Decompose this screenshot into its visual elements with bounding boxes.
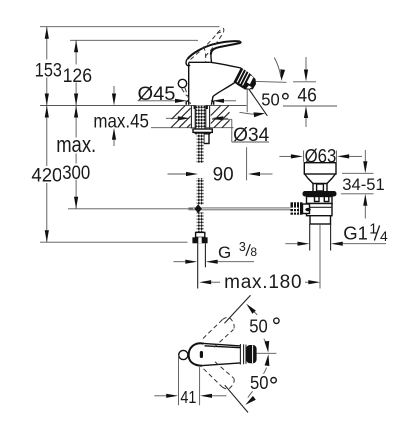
svg-text:50: 50 bbox=[261, 89, 280, 109]
label max.45 bbox=[92, 111, 151, 129]
lever raised (dashed) bbox=[191, 28, 224, 59]
label 153 bbox=[33, 60, 60, 78]
lever (solid) bbox=[188, 41, 240, 59]
svg-text:max.180: max.180 bbox=[224, 272, 302, 293]
dim line 153/420 bbox=[46, 27, 48, 243]
svg-text:153: 153 bbox=[35, 60, 62, 81]
lever arm bbox=[203, 343, 240, 346]
tailpipe bbox=[309, 224, 311, 251]
ring with tabs bbox=[307, 197, 333, 204]
svg-text:max.45: max.45 bbox=[93, 111, 148, 132]
extension line: lever max height bbox=[40, 26, 220, 28]
svg-text:50: 50 bbox=[250, 373, 269, 393]
diagonal legs bbox=[225, 295, 251, 323]
svg-text:G: G bbox=[218, 243, 231, 262]
svg-text:46: 46 bbox=[297, 85, 317, 106]
faucet body outline bbox=[188, 63, 190, 105]
lever dome bbox=[189, 343, 204, 365]
arrows 420 bbox=[45, 106, 49, 118]
50 deg indicator (top drawing) bbox=[248, 81, 287, 82]
faucet spout white fill bbox=[189, 62, 241, 105]
shank below base bbox=[190, 106, 192, 129]
flange bbox=[304, 163, 336, 174]
deck hatching right bbox=[211, 106, 230, 128]
Ø34 leader + label bbox=[212, 118, 232, 120]
label 300 bbox=[61, 164, 91, 180]
svg-text:420: 420 bbox=[31, 165, 62, 186]
svg-text:300: 300 bbox=[62, 163, 90, 184]
aerator (knurled cap) bbox=[234, 68, 256, 90]
clamp washer + nut bbox=[193, 129, 212, 132]
hose collar + nut bbox=[196, 232, 205, 237]
svg-text:126: 126 bbox=[63, 66, 93, 87]
dim line 126/max300 bbox=[75, 40, 77, 209]
upper 50deg arc + arrows bbox=[246, 304, 256, 314]
deck bottom / max45 extension line bbox=[108, 127, 234, 129]
pull rod knob + hidden rod dashes bbox=[178, 79, 186, 87]
label 126 bbox=[61, 65, 92, 83]
deck hatching left bbox=[171, 106, 191, 128]
46 dimension bbox=[305, 57, 307, 70]
G1 1/4 dimension bbox=[285, 243, 297, 245]
svg-text:34-51: 34-51 bbox=[342, 176, 385, 194]
label 420 bbox=[31, 166, 62, 183]
svg-text:G1: G1 bbox=[343, 223, 368, 244]
lower 50deg arc + arrows bbox=[265, 354, 270, 366]
svg-text:4: 4 bbox=[380, 228, 388, 244]
41 dimension bbox=[178, 355, 180, 405]
hose braid below bbox=[197, 134, 204, 163]
arrows 153 bbox=[45, 27, 49, 39]
svg-text:3: 3 bbox=[239, 240, 246, 254]
label max. bbox=[55, 138, 97, 154]
rod / max300 extension line bbox=[68, 208, 193, 210]
svg-text:90: 90 bbox=[213, 165, 234, 186]
small circle (rod end) bbox=[179, 350, 188, 359]
34-51 dimension bbox=[364, 150, 366, 161]
deck top line bbox=[40, 105, 247, 107]
rod junction dot bbox=[195, 204, 202, 213]
Ø63 dimension bbox=[279, 155, 291, 157]
washer (dark band) bbox=[303, 191, 337, 197]
max.180 dimension bbox=[199, 280, 211, 284]
dashed rotated lever down bbox=[204, 369, 223, 387]
90-dim right reference line bbox=[246, 147, 248, 180]
thread extension lines bbox=[197, 243, 199, 288]
Ø34 arrows bbox=[178, 116, 190, 120]
90 dimension bbox=[168, 173, 187, 175]
svg-text:max.: max. bbox=[56, 132, 96, 157]
hex body bbox=[307, 204, 333, 216]
svg-text:50: 50 bbox=[249, 316, 267, 336]
max.45 dimension bbox=[113, 86, 115, 94]
arrows max300 bbox=[74, 106, 78, 118]
svg-text:41: 41 bbox=[180, 387, 196, 407]
hinge slot bbox=[200, 351, 203, 358]
horizontal ref line bbox=[256, 352, 276, 354]
dashed rotated lever up bbox=[203, 320, 223, 339]
arrows 126 bbox=[74, 40, 78, 52]
lower collar bbox=[310, 216, 331, 224]
420 bottom extension line bbox=[40, 241, 188, 243]
svg-text:8: 8 bbox=[250, 245, 257, 259]
rod knob (left, knurled) bbox=[291, 202, 303, 214]
svg-text:Ø45: Ø45 bbox=[138, 84, 176, 105]
svg-text:Ø34: Ø34 bbox=[233, 125, 269, 146]
rotation arc dashed bbox=[204, 46, 206, 61]
extension line: lever tip height bbox=[70, 39, 198, 41]
